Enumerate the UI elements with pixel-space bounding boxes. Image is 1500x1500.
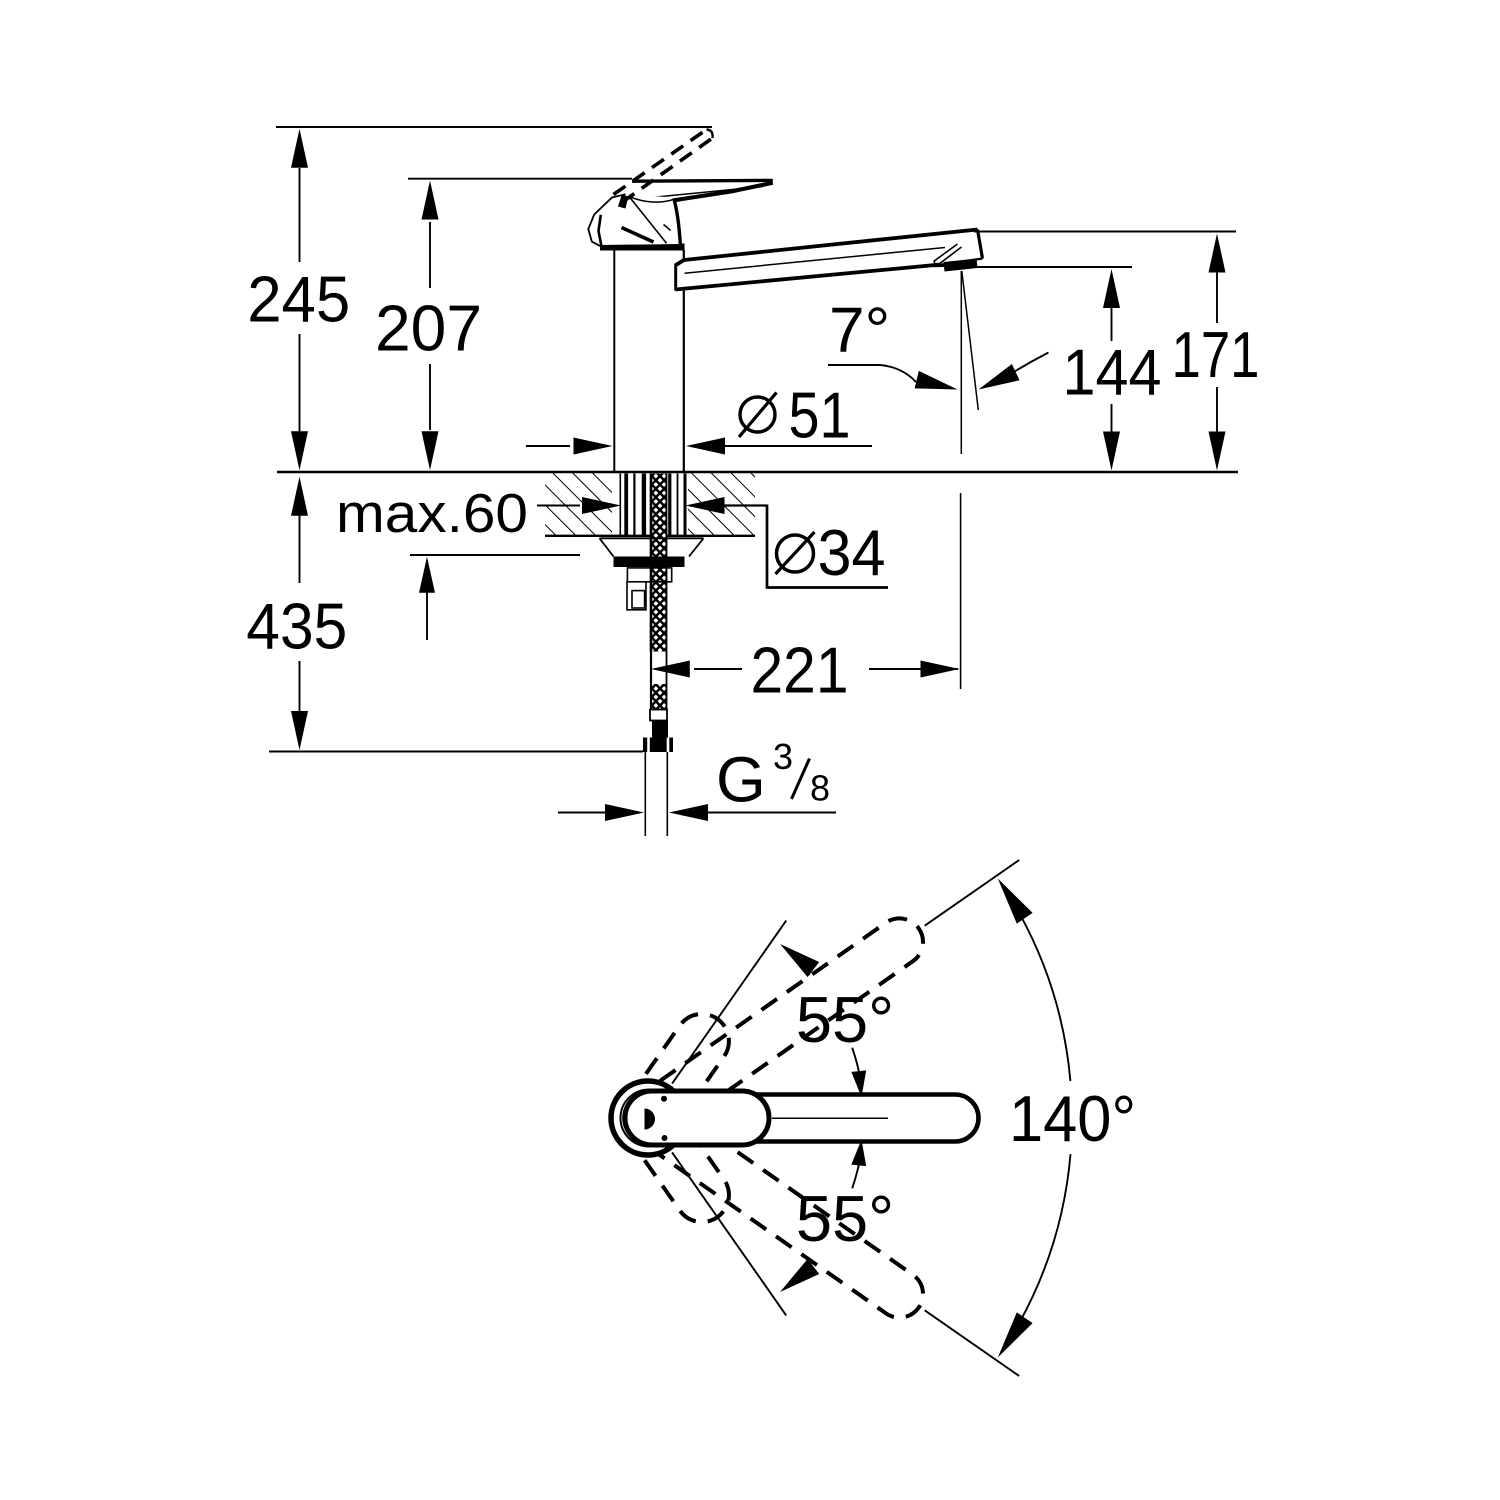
55deg arc lower arrow B xyxy=(780,1259,819,1292)
pivot dot lower xyxy=(662,1135,668,1141)
dim 144 line xyxy=(1111,307,1113,341)
handle lever xyxy=(622,180,773,209)
lever top edge xyxy=(632,179,773,183)
mounting nut xyxy=(614,557,685,568)
mounting deck line xyxy=(277,471,1238,474)
svg-text:G: G xyxy=(716,744,766,816)
dim 171 ext xyxy=(974,231,1236,233)
cartridge mark xyxy=(645,1109,656,1130)
dim 435 bottom ext xyxy=(269,751,643,753)
dim 245 line xyxy=(299,168,301,262)
dim 245 arrow down xyxy=(291,431,308,470)
column top cap xyxy=(600,244,685,251)
spout axis line xyxy=(772,1117,888,1119)
lever bottom edge xyxy=(629,183,773,209)
raised lever dashes xyxy=(614,130,707,195)
svg-text:435: 435 xyxy=(246,590,347,663)
dim O51 right arrow xyxy=(686,438,725,455)
dashed spout position lower xyxy=(615,1085,932,1327)
knob facet line 1 xyxy=(630,197,667,243)
supply pipe xyxy=(644,752,646,836)
svg-text:221: 221 xyxy=(751,634,849,707)
svg-text:245: 245 xyxy=(247,263,350,336)
svg-text:34: 34 xyxy=(818,516,886,589)
knob thick slash xyxy=(622,228,654,243)
knob right edge xyxy=(674,199,681,245)
mounting flange xyxy=(600,538,704,556)
140deg line upper xyxy=(925,860,1020,926)
dashed spout position upper xyxy=(615,909,932,1151)
column right edge xyxy=(683,250,685,472)
handle capsule xyxy=(625,1091,769,1145)
svg-text:7°: 7° xyxy=(829,294,890,366)
spout arm bottom edge xyxy=(676,265,941,290)
spout break slashes xyxy=(934,244,958,262)
hose end collar xyxy=(650,710,667,721)
140deg line lower xyxy=(925,1310,1020,1376)
knob outline xyxy=(588,194,625,246)
knob junction wedge xyxy=(618,195,628,209)
knob facet line 2 xyxy=(629,197,674,203)
svg-text:171: 171 xyxy=(1172,318,1260,391)
dim 435 arrow down xyxy=(291,711,308,750)
braided hose upper xyxy=(650,474,667,652)
svg-text:55°: 55° xyxy=(796,1182,894,1255)
dim 435 arrow up xyxy=(291,477,308,516)
fitting box C xyxy=(632,591,645,608)
svg-text:3: 3 xyxy=(773,736,793,777)
braided hose lower segment xyxy=(650,684,667,709)
dim max60 ext line xyxy=(410,554,580,556)
55deg arc upper arrow A xyxy=(851,1070,866,1097)
svg-text:55°: 55° xyxy=(796,983,894,1056)
svg-text:207: 207 xyxy=(375,292,482,365)
spout small step xyxy=(935,262,945,267)
dim max60 left arrow xyxy=(537,505,580,507)
55deg line lower xyxy=(672,1152,786,1315)
label O34 xyxy=(777,535,814,572)
lever inner line xyxy=(651,187,763,198)
spout end right edge xyxy=(978,230,983,259)
dim max60 vert arrow xyxy=(419,557,435,593)
140deg arc xyxy=(1020,1154,1071,1322)
dim 245 arrow up xyxy=(291,129,308,168)
svg-text:140°: 140° xyxy=(1009,1082,1136,1155)
55deg arc upper arrow B xyxy=(780,944,819,977)
dim 207 arrow down xyxy=(422,431,439,470)
threaded shank xyxy=(619,474,621,537)
spout arm top edge xyxy=(676,230,978,266)
pivot inner circle xyxy=(621,1090,678,1147)
dim 207 ext top xyxy=(408,178,632,180)
55deg arc lower arrow A xyxy=(851,1140,866,1167)
column left edge xyxy=(613,250,615,472)
140deg arc arrow up xyxy=(998,879,1033,924)
hose end nut xyxy=(643,738,673,753)
fitting box A xyxy=(627,568,671,582)
spout arm inner line xyxy=(685,248,946,274)
fitting box B xyxy=(627,582,646,610)
dim 245 ext top xyxy=(276,126,712,128)
spout arm fill xyxy=(676,228,984,292)
140deg arc arrow down xyxy=(998,1312,1033,1357)
dashed handle position lower xyxy=(613,1084,740,1233)
dim 221 line xyxy=(694,668,742,670)
dim O34 leader xyxy=(767,505,888,588)
dim O51 left arrow xyxy=(526,445,570,447)
dim 435 line xyxy=(299,515,301,583)
outlet 7deg line xyxy=(962,271,979,410)
spout capsule xyxy=(625,1095,979,1142)
55deg line upper xyxy=(672,921,786,1084)
spout end bottom edge xyxy=(941,259,983,265)
55deg arc lower xyxy=(852,1150,861,1188)
dim 221 arrows xyxy=(651,661,690,678)
knob fill xyxy=(588,195,680,246)
dim 171 arrows xyxy=(1209,234,1226,273)
spout arm left edge xyxy=(674,264,677,291)
hose end body xyxy=(652,721,668,738)
dim 7deg leader left xyxy=(828,365,916,382)
counter bottom edge xyxy=(545,535,755,537)
dim 207 line xyxy=(429,222,431,288)
dim max60 right arrow xyxy=(686,497,725,514)
knob left inner edge xyxy=(599,215,602,247)
pivot dot upper xyxy=(661,1096,667,1102)
55deg arc upper xyxy=(852,1048,861,1086)
dim 221 ext right xyxy=(960,493,962,689)
aerator outlet xyxy=(944,259,978,272)
dim 7deg leader right xyxy=(1013,353,1049,373)
dim 144 ext xyxy=(973,266,1132,268)
pivot outer circle xyxy=(611,1081,685,1155)
label O51 xyxy=(740,397,775,432)
dashed handle position upper xyxy=(613,1003,740,1152)
dim 171 line xyxy=(1216,272,1218,323)
svg-text:8: 8 xyxy=(810,768,830,809)
dim 144 arrows xyxy=(1103,269,1120,308)
svg-text:144: 144 xyxy=(1063,336,1162,409)
knob small mark xyxy=(664,225,671,231)
dim G38 arrows xyxy=(558,812,606,814)
svg-text:51: 51 xyxy=(789,379,851,452)
dim 207 arrow up xyxy=(422,181,439,220)
svg-text:max.60: max.60 xyxy=(336,482,528,544)
outlet vertical line xyxy=(960,271,962,454)
